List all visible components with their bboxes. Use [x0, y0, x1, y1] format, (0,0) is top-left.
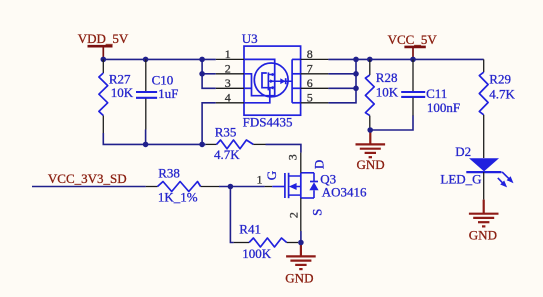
Q3 pin G name: [264, 171, 279, 180]
Q3 pin D name: [311, 160, 326, 169]
resistor R38: [146, 165, 219, 204]
svg-text:7: 7: [307, 61, 313, 75]
svg-text:D2: D2: [455, 144, 471, 159]
node junction pin1 branch: [199, 57, 205, 63]
U3 pins 1-8 with numbers: [216, 47, 329, 104]
svg-text:R41: R41: [239, 221, 261, 236]
Q3 pin 1 label: [257, 173, 263, 187]
resistor R29: [479, 59, 515, 158]
svg-text:R28: R28: [376, 70, 398, 85]
wire Q3 source to GND: [300, 231, 302, 243]
svg-text:VDD_5V: VDD_5V: [78, 31, 129, 46]
node junction R41/source: [298, 240, 304, 246]
svg-text:10K: 10K: [376, 84, 399, 99]
svg-text:G: G: [264, 171, 279, 180]
node junction VCC/C11: [410, 57, 416, 63]
node junction C10 top: [143, 57, 149, 63]
svg-text:2: 2: [225, 61, 231, 75]
U3 value label FDS4435: [243, 115, 293, 130]
node junction C10 bottom: [143, 142, 149, 148]
svg-text:R38: R38: [158, 165, 180, 180]
Q3 pin 2 label: [287, 212, 301, 218]
node junction bus top: [353, 57, 359, 63]
transistor Q3 (AO3416 N-MOSFET): [265, 153, 319, 231]
node junction pin7: [353, 71, 359, 77]
node junction gate/R41: [228, 184, 234, 190]
wire R28/C11 bottom: [370, 116, 413, 131]
resistor R35: [206, 125, 266, 163]
wire VCC_3V3_SD: [32, 186, 146, 188]
D2 designator label: [455, 144, 471, 159]
svg-text:4: 4: [225, 90, 231, 104]
svg-text:GND: GND: [469, 228, 497, 243]
Q3 pin S name: [309, 209, 324, 216]
svg-text:100K: 100K: [242, 246, 272, 261]
node junction pin4 bus: [199, 142, 205, 148]
power flag VDD_5V: [78, 31, 129, 59]
svg-text:100nF: 100nF: [427, 100, 460, 115]
svg-text:FDS4435: FDS4435: [243, 115, 293, 130]
wire U3 pin4 down to R35 bus: [202, 103, 216, 145]
node junction R28 bottom: [367, 127, 373, 133]
node junction R28 top: [367, 57, 373, 63]
svg-text:5: 5: [307, 90, 313, 104]
svg-text:VCC_5V: VCC_5V: [388, 32, 438, 47]
svg-text:8: 8: [307, 47, 313, 61]
node junction pin6: [353, 86, 359, 92]
svg-text:1uF: 1uF: [158, 86, 178, 101]
ground GND3 under Q3: [285, 243, 315, 286]
LED D2: [466, 158, 513, 199]
wire VDD bus to U3 pin1: [103, 58, 216, 60]
svg-text:R35: R35: [215, 125, 237, 140]
wire U3 right bus: [328, 59, 356, 102]
wire bottom bus R27/C10/R35: [103, 130, 206, 145]
capacitor C10: [136, 59, 178, 129]
svg-text:GND: GND: [357, 157, 385, 172]
node junction VDD: [101, 57, 107, 63]
svg-text:U3: U3: [242, 31, 258, 46]
svg-text:C11: C11: [426, 86, 447, 101]
svg-text:4.7K: 4.7K: [489, 86, 515, 101]
svg-text:D: D: [311, 160, 326, 169]
svg-text:VCC_3V3_SD: VCC_3V3_SD: [48, 171, 127, 186]
U3 designator label: [242, 31, 258, 46]
capacitor C11: [401, 59, 460, 116]
svg-text:1K_1%: 1K_1%: [158, 189, 198, 204]
ground GND2 under D2: [469, 200, 499, 243]
svg-text:3: 3: [286, 154, 300, 160]
IC U3 FDS4435 body: [244, 46, 301, 115]
svg-text:GND: GND: [285, 271, 313, 286]
svg-text:R29: R29: [489, 72, 511, 87]
svg-text:S: S: [309, 209, 324, 216]
node junction pin2 branch: [199, 71, 205, 77]
Q3 designator label: [320, 172, 336, 187]
D2 value label LED_G: [440, 172, 481, 187]
resistor R28: [365, 59, 398, 129]
resistor R27: [99, 59, 134, 133]
net label VCC_3V3_SD: [48, 171, 127, 186]
wire VCC bus to R29: [328, 58, 483, 60]
svg-text:10K: 10K: [111, 85, 134, 100]
wire R35 to Q3 drain: [266, 144, 301, 152]
resistor R41: [234, 221, 298, 261]
ground GND1 under R28: [356, 131, 386, 172]
svg-text:6: 6: [307, 76, 313, 90]
wire junction down to R41: [230, 187, 233, 243]
Q3 value label AO3416: [322, 184, 367, 199]
wire R38 to Q3 gate: [219, 186, 265, 188]
power flag VCC_5V: [388, 32, 438, 59]
Q3 pin 3 label: [286, 154, 300, 160]
svg-text:3: 3: [225, 76, 231, 90]
svg-text:AO3416: AO3416: [322, 184, 367, 199]
svg-text:4.7K: 4.7K: [214, 147, 240, 162]
svg-text:1: 1: [225, 47, 231, 61]
wire branch to U3 pins 2-3: [202, 59, 216, 88]
svg-text:LED_G: LED_G: [440, 172, 481, 187]
svg-text:2: 2: [287, 212, 301, 218]
svg-text:1: 1: [257, 173, 263, 187]
